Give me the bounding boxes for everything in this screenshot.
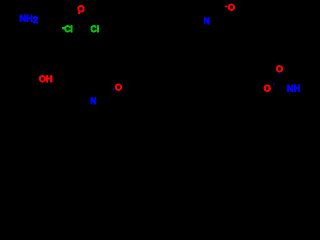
bond stub C=O red (78, 12, 80, 14)
bond stub near ring O blue (113, 89, 114, 90)
bond stub Cl left green (63, 27, 65, 29)
svg-text:N: N (204, 15, 210, 26)
svg-text:NH: NH (287, 82, 301, 93)
bond stub below amide O blue (278, 72, 279, 73)
bond stub N-O red (225, 6, 227, 8)
svg-text:O: O (115, 81, 122, 92)
atom NH2 (amine) (19, 12, 38, 25)
svg-text:O: O (264, 82, 271, 93)
svg-text:N: N (91, 95, 97, 106)
svg-text:O: O (228, 1, 235, 12)
svg-text:OH: OH (39, 73, 53, 84)
svg-text:Cl: Cl (64, 23, 73, 34)
svg-text:NH: NH (19, 12, 33, 23)
bond stub near NH blue (273, 83, 274, 85)
svg-text:2: 2 (33, 14, 38, 25)
svg-text:Cl: Cl (91, 23, 100, 34)
